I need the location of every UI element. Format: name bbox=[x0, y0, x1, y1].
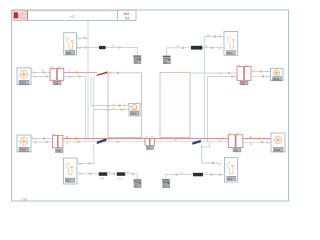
plaque R6 bbox=[274, 147, 284, 151]
svg-text:br: br bbox=[266, 76, 268, 79]
red bus wire (long) bbox=[63, 138, 228, 140]
splice dot R4 upper bbox=[260, 71, 262, 73]
svg-text:R105: R105 bbox=[20, 148, 27, 152]
connector half T28a left bbox=[50, 68, 57, 80]
in-line connector T2 right half bbox=[150, 138, 154, 145]
splice dot R6 lower bbox=[261, 141, 263, 143]
speaker box R6 (right bottom) bbox=[271, 133, 285, 152]
svg-text:T28: T28 bbox=[234, 150, 239, 153]
svg-text:R21: R21 bbox=[227, 51, 232, 55]
splice bar blue right bbox=[192, 140, 201, 145]
link from blue bar to gray bus bbox=[201, 142, 210, 147]
filter Z1 (black box, top-left chain) bbox=[99, 46, 106, 49]
pin stub E1 lower wire bbox=[76, 46, 99, 48]
plaque R5 bbox=[19, 147, 29, 151]
svg-text:A32: A32 bbox=[70, 14, 75, 18]
wire T28b to R4 upper bbox=[251, 70, 271, 72]
splice dot R5 lower bbox=[46, 141, 48, 143]
svg-text:J533: J533 bbox=[131, 112, 137, 115]
speaker symbol in R6 bbox=[274, 136, 282, 144]
bus bar inner line bbox=[28, 11, 118, 13]
in-line connector T2 left half bbox=[145, 138, 149, 145]
splice dot R3 lower bbox=[46, 76, 48, 78]
plaque R4 bbox=[273, 77, 282, 81]
splice dot on E3 lower wire bbox=[90, 173, 92, 175]
svg-text:R106: R106 bbox=[274, 149, 281, 152]
splice dot J stub lower bbox=[121, 109, 123, 111]
wire E2 upper pin, corner down to red bus bbox=[204, 37, 224, 139]
svg-text:br: br bbox=[34, 138, 36, 141]
splice dot on E3 upper wire bbox=[89, 163, 91, 165]
svg-text:T28: T28 bbox=[56, 150, 61, 153]
plaque J533 bbox=[130, 111, 138, 115]
main supply wire drop from bus bar bbox=[87, 21, 89, 140]
splice dot right row upper bbox=[228, 72, 230, 74]
connector half T28b left bbox=[237, 67, 244, 81]
plaque E4 bbox=[227, 176, 236, 180]
switch symbol inside E4 bbox=[227, 161, 234, 174]
svg-text:R104: R104 bbox=[273, 78, 280, 81]
J-box stub wire lower bbox=[94, 109, 129, 111]
connector half T28c right bbox=[58, 135, 63, 148]
plaque T2 bbox=[147, 146, 154, 149]
splice dot near ground BR bbox=[176, 174, 178, 176]
control unit box J503 right bbox=[160, 72, 190, 137]
wire R5 upper bbox=[31, 138, 53, 140]
splice dot on E2 upper wire bbox=[214, 36, 216, 38]
splice dot after Z1 bbox=[119, 47, 121, 49]
wire R5 lower bbox=[31, 141, 53, 143]
svg-text:sw: sw bbox=[218, 36, 221, 39]
svg-text:D4: D4 bbox=[125, 16, 129, 20]
filter Z5 (black box, bottom-right chain) bbox=[193, 173, 203, 177]
svg-text:br: br bbox=[68, 70, 70, 73]
splice dot right row lower bbox=[231, 76, 233, 78]
svg-text:ro: ro bbox=[109, 71, 112, 75]
wire E3 lower pin bbox=[77, 173, 99, 175]
splice dot gray bus left bbox=[78, 141, 80, 143]
switch symbol inside E1 bbox=[67, 37, 74, 50]
speaker box R5 (left bottom) bbox=[17, 135, 31, 152]
splice dot T28a upper bbox=[76, 72, 78, 74]
speaker symbol in R4 bbox=[274, 70, 281, 76]
module box J533 bbox=[129, 103, 140, 116]
splice dot after blue bar bbox=[117, 141, 119, 143]
splice dot R4 lower bbox=[262, 75, 264, 77]
plaque T28d bbox=[233, 149, 241, 152]
splice dot J stub upper bbox=[119, 105, 121, 107]
splice dot left of Z2 bbox=[182, 47, 184, 49]
wire Z3 to Z4 bbox=[107, 173, 117, 175]
switch symbol inside E2 bbox=[228, 36, 235, 49]
wire big-box right edge to connector T28b upper bbox=[190, 72, 237, 74]
splice dot after red splice bbox=[117, 72, 119, 74]
connector half T28d right bbox=[236, 135, 243, 148]
svg-text:sw: sw bbox=[218, 47, 221, 50]
svg-text:R23: R23 bbox=[228, 177, 233, 181]
splice dot red bus right bbox=[222, 138, 224, 140]
plaque E3 bbox=[65, 178, 75, 182]
svg-text:sw: sw bbox=[79, 173, 82, 176]
svg-text:R24: R24 bbox=[100, 177, 105, 180]
wire ground to E2 lower pin bbox=[167, 48, 225, 56]
svg-text:br: br bbox=[34, 76, 36, 79]
svg-text:br: br bbox=[66, 135, 68, 139]
wire R3 lower to connector bbox=[31, 75, 50, 77]
pin stub E1 upper bbox=[76, 37, 88, 39]
middle vertical wire 2 bbox=[90, 76, 92, 105]
svg-text:sw: sw bbox=[219, 162, 222, 165]
bus bar divider bbox=[117, 10, 119, 20]
filter Z2 (black box, top-right chain) bbox=[191, 46, 202, 50]
splice dot after Z4 bbox=[132, 173, 134, 175]
control unit box J503 left bbox=[108, 73, 142, 138]
wire T28a lower, corner down bbox=[64, 76, 86, 140]
speaker symbol in R5 bbox=[20, 137, 28, 145]
splice dot right of Z5 bbox=[211, 174, 213, 176]
splice dot R3 upper bbox=[43, 72, 45, 74]
component box E4 (bottom-right) bbox=[224, 158, 237, 182]
svg-text:db: db bbox=[66, 144, 69, 146]
J-box stub wire upper bbox=[91, 105, 129, 107]
wire R3 upper to connector bbox=[31, 71, 50, 73]
ground 608 (top-right) bbox=[163, 56, 171, 65]
svg-text:db: db bbox=[250, 144, 253, 146]
wire ground to E4 lower pin bbox=[166, 174, 225, 179]
ground 607 (top-left) bbox=[133, 56, 141, 65]
svg-text:sw: sw bbox=[78, 47, 81, 50]
splice dot on E1 upper wire bbox=[84, 37, 86, 39]
plaque E1 bbox=[66, 50, 75, 54]
plaque T28a bbox=[53, 81, 61, 85]
splice dot R6 upper bbox=[259, 138, 261, 140]
connector half T28d left bbox=[228, 135, 235, 148]
top bus bar outer box bbox=[13, 10, 136, 20]
icon in J533 bbox=[132, 105, 137, 110]
speaker box R3 (left middle) bbox=[17, 68, 31, 85]
plaque E2 bbox=[226, 51, 235, 55]
svg-text:R20: R20 bbox=[66, 51, 71, 55]
gray bus wire (long) bbox=[63, 141, 228, 143]
svg-text:T28: T28 bbox=[241, 82, 246, 85]
splice dot right of Z2 bbox=[211, 47, 213, 49]
svg-text:sw: sw bbox=[107, 109, 110, 112]
splice dot between Z3 Z4 bbox=[113, 173, 115, 175]
wire T28b to R4 lower bbox=[251, 75, 271, 77]
speaker box R4 (right middle) bbox=[271, 68, 284, 81]
wire T28d to R6 lower bbox=[243, 141, 271, 143]
filter Z3 (black box 1, bottom-left chain) bbox=[99, 172, 107, 176]
splice dot T28a lower bbox=[79, 76, 81, 78]
middle vertical wire 3 bbox=[93, 76, 95, 141]
svg-text:br: br bbox=[266, 71, 268, 74]
component box E2 (top-right) bbox=[224, 32, 238, 56]
connector half T28c left bbox=[53, 135, 58, 148]
wire T28b lower corner down bbox=[208, 76, 237, 141]
svg-text:R103: R103 bbox=[20, 81, 27, 85]
speaker symbol in R3 bbox=[20, 70, 28, 78]
splice dot on E1 lower wire bbox=[85, 47, 87, 49]
wire Z4 to ground corner bbox=[125, 174, 137, 180]
component box E3 (bottom-left) bbox=[63, 158, 77, 184]
svg-text:ws: ws bbox=[112, 44, 116, 47]
wire T28a upper to red splice bbox=[64, 71, 97, 73]
filter Z4 (black box 2, bottom-left chain) bbox=[117, 172, 125, 176]
top bus bar left cell (pink) bbox=[13, 11, 27, 21]
splice dot red bus left bbox=[75, 138, 77, 140]
connector half T28b right bbox=[244, 67, 251, 81]
splice dot R5 upper bbox=[43, 138, 45, 140]
wire E3 upper pin corner up to blue bar bbox=[77, 144, 94, 163]
svg-text:sw: sw bbox=[107, 105, 110, 108]
svg-text:sw: sw bbox=[219, 174, 222, 177]
wire Z1 to ground corner bbox=[106, 47, 138, 55]
svg-text:br: br bbox=[250, 135, 252, 139]
svg-text:sw: sw bbox=[78, 38, 81, 41]
svg-text:4D: 4D bbox=[53, 134, 56, 136]
ground 609 (bottom-left) bbox=[133, 179, 141, 188]
svg-text:br: br bbox=[34, 72, 36, 75]
svg-text:T28: T28 bbox=[54, 82, 59, 85]
red splice bar K1 bbox=[97, 71, 108, 76]
svg-text:R22: R22 bbox=[66, 179, 71, 183]
svg-text:R25: R25 bbox=[118, 177, 123, 180]
svg-text:7-84: 7-84 bbox=[21, 198, 28, 202]
ground 610 (bottom-right) bbox=[162, 179, 170, 188]
page frame bbox=[12, 10, 289, 201]
wire T28d to R6 upper (red) bbox=[243, 138, 271, 140]
splice bar blue left bbox=[97, 138, 107, 144]
connector half T28a right bbox=[57, 68, 64, 80]
switch symbol inside E3 bbox=[66, 162, 73, 175]
plaque T28c bbox=[56, 149, 64, 153]
drop from blue bar to E4 bbox=[202, 145, 219, 163]
component box E1 (top-left) bbox=[64, 33, 77, 55]
splice dot E4 upper wire bbox=[212, 162, 214, 164]
plaque T28b bbox=[240, 81, 248, 85]
svg-text:br: br bbox=[220, 72, 222, 75]
svg-text:sw: sw bbox=[79, 163, 82, 166]
svg-text:br: br bbox=[266, 138, 268, 141]
fuse-box connector symbol (red) bbox=[14, 11, 28, 20]
plaque R3 bbox=[19, 80, 29, 84]
